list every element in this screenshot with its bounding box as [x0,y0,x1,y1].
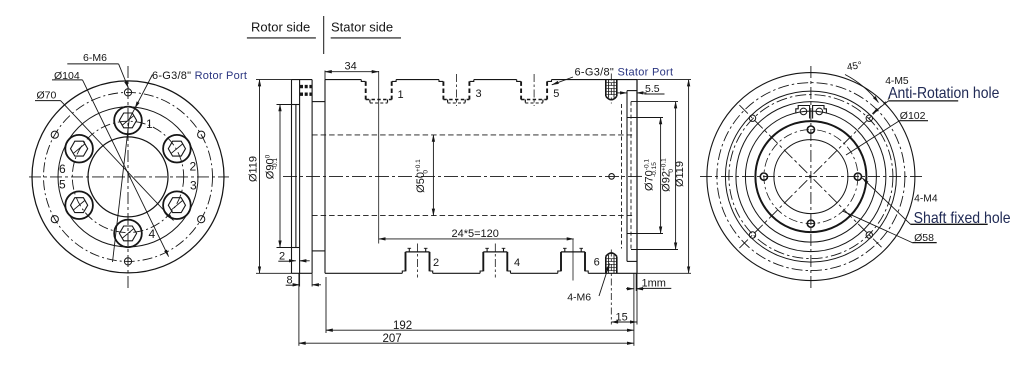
svg-text:4-M4: 4-M4 [914,194,938,205]
M6 bolt hole at 330 deg [198,216,205,223]
svg-text:5: 5 [553,88,559,100]
circle Ø92 [736,102,886,252]
body top surface [325,79,361,81]
leader line rotor port [135,75,153,109]
svg-text:1mm: 1mm [642,278,666,290]
svg-text:45°: 45° [846,60,863,73]
G3/8 rotor port 2 [163,135,191,163]
svg-text:6: 6 [594,256,600,268]
svg-text:2: 2 [433,257,439,269]
svg-text:4: 4 [149,227,156,241]
leader line dia104 [83,80,169,257]
M6 bolt hole at 30 deg [198,131,205,138]
svg-text:Ø70-0.1-0.15: Ø70-0.1-0.15 [644,159,659,191]
G3/8 stator port 5 (top) [517,74,552,106]
M6 bolt hole at 270 deg [124,258,131,265]
M6 bolt hole at 210 deg [51,216,58,223]
dim dia50 [432,135,434,216]
G3/8 rotor port 5 [65,191,93,219]
dim dia119 right [637,79,691,81]
dim dia90 [277,104,296,106]
svg-text:Ø58: Ø58 [914,232,934,244]
svg-text:24*5=120: 24*5=120 [452,228,499,240]
dim 24*5=120 [379,238,574,240]
dim 207 [298,273,300,346]
leader dia58 [912,242,937,244]
vertical centerline [810,66,812,288]
body bottom surface [325,272,402,274]
horizontal centerline [700,176,922,178]
G3/8 stator port 1 (top) [361,71,396,244]
G3/8 rotor port 4 [114,220,142,248]
M5 anti-rotation hole [749,115,755,121]
dim 5.5 [617,92,627,94]
dim dia119 left [256,79,292,81]
port circle Ø70 (dash-dot) [72,121,183,232]
svg-text:34: 34 [345,60,357,72]
dim 192 [325,277,327,333]
stator flange [626,91,628,262]
diagonal centerline NE-SW [739,98,890,249]
circle Ø80 [745,111,876,242]
svg-text:3: 3 [190,179,197,193]
G3/8 stator port 3 (top) [439,74,474,106]
G3/8 stator port 4 (bottom) [480,244,510,278]
G3/8 rotor port 3 [163,191,191,219]
svg-text:15: 15 [616,312,628,324]
leader 4-M6 [599,264,610,297]
center bore circle [774,140,848,214]
stator flange OD circle [725,91,896,262]
svg-text:Rotor side: Rotor side [251,20,310,35]
svg-text:Ø900-0.1: Ø900-0.1 [265,154,280,179]
dim dia70 right [627,117,663,119]
horizontal centerline [29,176,229,178]
svg-text:1: 1 [146,117,153,131]
svg-text:Ø119: Ø119 [248,156,260,182]
center bore Ø50 [88,137,168,217]
dim 1mm [635,273,637,291]
svg-text:4-M6: 4-M6 [567,291,591,303]
M6 bolt hole at 90 deg [124,89,131,96]
bore hidden lines [312,134,634,136]
svg-text:6-M6: 6-M6 [83,52,107,64]
svg-text:Stator side: Stator side [331,20,393,35]
svg-text:Ø50+0.10: Ø50+0.10 [415,159,430,193]
svg-text:5: 5 [59,177,66,191]
svg-text:4: 4 [514,257,520,269]
flange outer circle Ø119 [32,81,224,273]
anti-rotation tab left [796,106,810,119]
leader 4-M5 [888,100,958,102]
M5 anti-rotation hole [749,232,755,238]
section view body [283,80,645,274]
svg-text:Ø119: Ø119 [674,161,686,187]
svg-text:Anti-Rotation hole: Anti-Rotation hole [888,84,999,102]
M6 tapped hole (stator flange mount) [606,74,617,104]
pin hole near stator flange [609,174,615,180]
body outline [324,80,326,274]
dim 8 [299,273,301,286]
M5 anti-rotation hole [866,115,872,121]
spigot circle Ø90 [58,107,198,247]
diagonal centerline NW-SE [739,105,882,248]
flange thread hatch bands [300,85,312,88]
rotor flange outline [291,80,293,274]
dim 34 [324,71,326,80]
G3/8 stator port 2 (bottom) [402,244,432,278]
svg-text:207: 207 [383,333,402,345]
M5 anti-rotation hole [866,232,872,238]
outer housing circle [707,73,915,281]
bolt circle Ø102 (dash-dot) [729,95,893,259]
svg-text:6: 6 [59,162,66,176]
leader line 6-M6 [119,64,129,88]
svg-text:Shaft fixed hole: Shaft fixed hole [914,209,1011,227]
svg-text:5.5: 5.5 [645,83,660,95]
anti-rotation tab right [813,106,827,119]
M6 bolt hole at 150 deg [51,131,58,138]
leader dia102 [846,121,899,155]
M6 tapped hole (stator flange mount) [606,250,617,325]
seal groove circle (dash-dot) [717,83,905,271]
stator-side rear view [700,66,922,288]
vertical centerline [127,66,129,288]
M4 shaft fixed hole [807,220,814,227]
leader stator port [552,77,573,85]
leader line dia70 [61,101,174,221]
svg-text:2: 2 [190,160,197,174]
rotor-side front view [29,64,229,288]
45 degree dim arc [845,75,879,103]
circle Ø70 (thick) [755,121,866,232]
svg-text:Ø92+0.10: Ø92+0.10 [661,158,676,192]
svg-text:3: 3 [476,88,482,100]
M4 shaft fixed hole [760,173,767,180]
M4 shaft fixed hole [807,126,814,133]
separator line [323,16,325,54]
main centerline [283,175,645,177]
bolt circle Ø58 (dash-dot) [764,130,858,224]
bolt circle Ø104 (dash-dot) [44,92,213,261]
G3/8 rotor port 1 [114,107,142,135]
M4 shaft fixed hole [854,173,861,180]
svg-text:192: 192 [393,320,412,332]
dim 2 [289,260,296,262]
G3/8 rotor port 6 [65,135,93,163]
dim dia92 right [631,101,678,103]
dim 15 [636,273,638,324]
svg-text:6-G3/8" Rotor Port: 6-G3/8" Rotor Port [152,70,247,82]
svg-text:Ø70: Ø70 [37,90,57,102]
svg-text:6-G3/8" Stator Port: 6-G3/8" Stator Port [575,67,674,79]
G3/8 stator port 6 (bottom) [558,239,588,281]
svg-text:1: 1 [398,89,404,101]
leader 4-M4 [911,223,988,225]
neck between flange and body [312,101,325,103]
svg-text:Ø102: Ø102 [900,110,926,122]
